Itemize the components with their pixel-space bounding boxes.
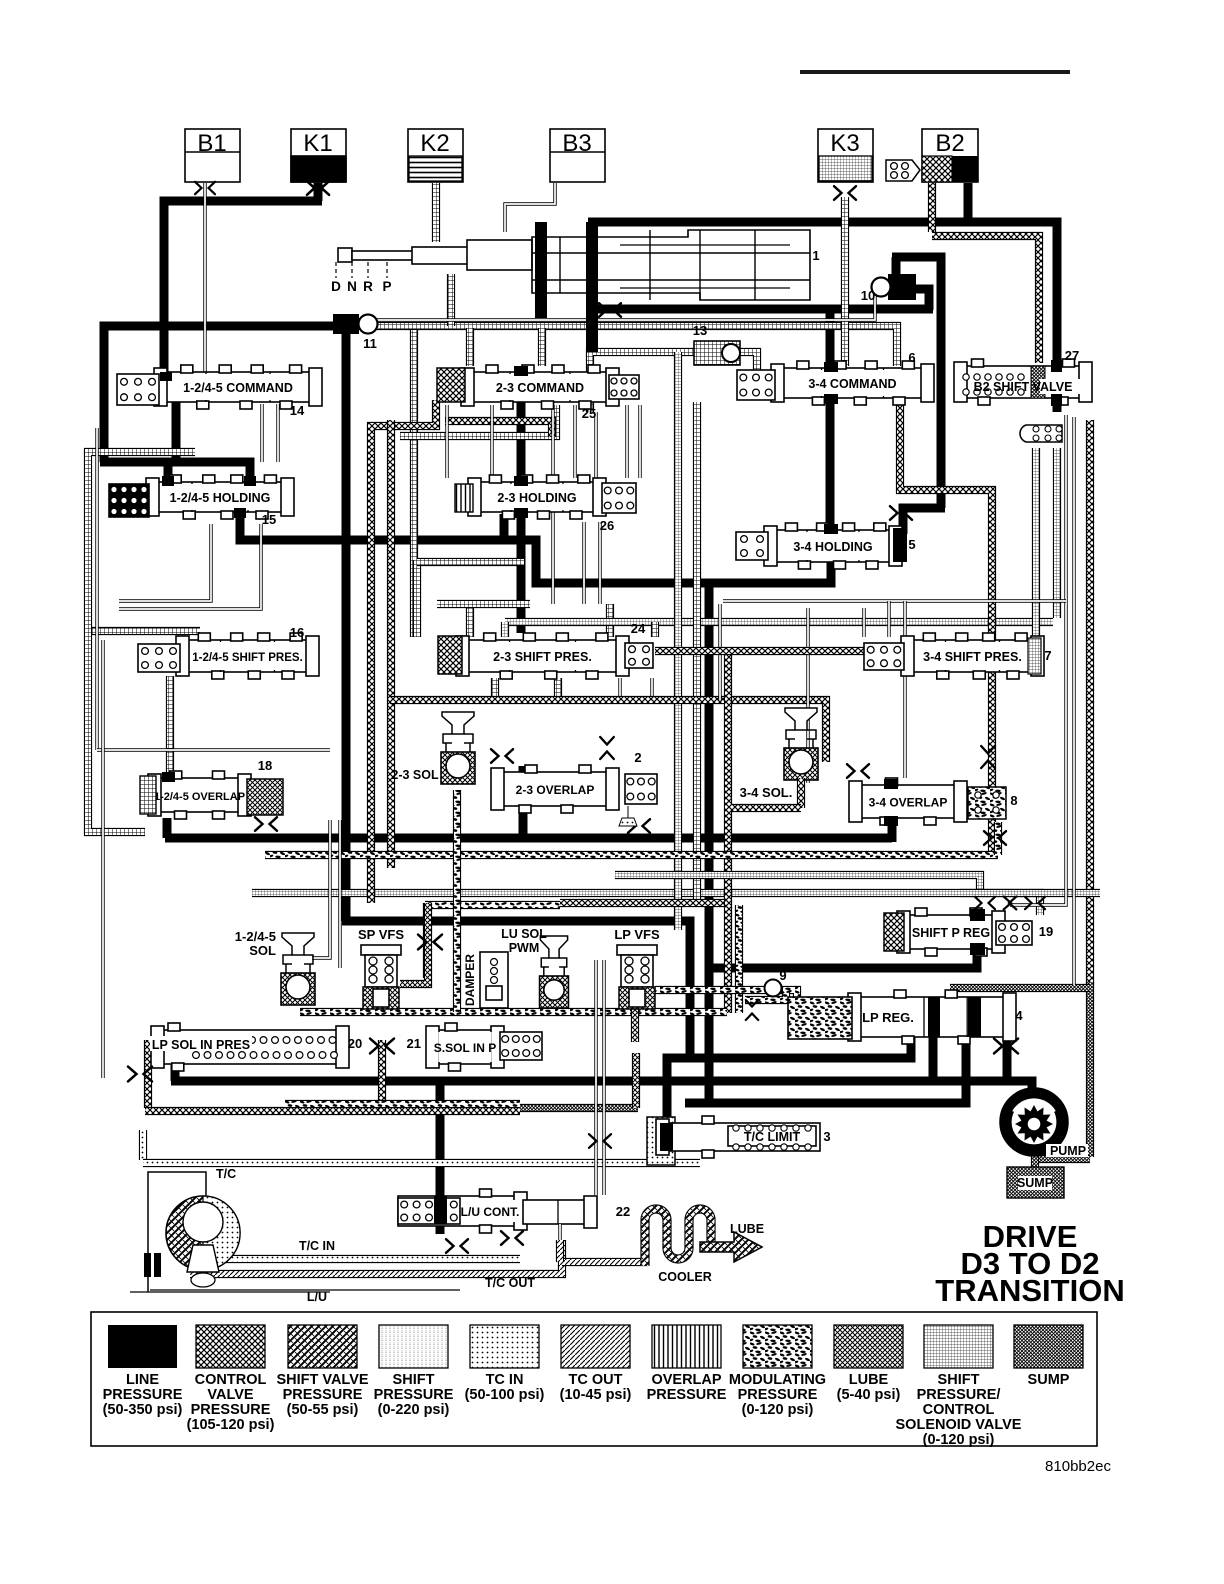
svg-text:PRESSURE: PRESSURE — [647, 1387, 727, 1403]
shaft line pressure bars — [535, 222, 547, 318]
left ladder frame — [88, 452, 195, 832]
svg-text:P: P — [382, 279, 391, 294]
control band y903 — [560, 899, 726, 907]
svg-text:26: 26 — [600, 518, 614, 533]
svg-text:B2: B2 — [935, 130, 964, 157]
spray nozzle under 2-3 overlap — [619, 806, 637, 826]
svg-text:3-4 SHIFT PRES.: 3-4 SHIFT PRES. — [923, 650, 1022, 664]
svg-text:SP VFS: SP VFS — [358, 927, 404, 942]
svg-text:(50-55 psi): (50-55 psi) — [287, 1402, 359, 1418]
svg-text:2-3 COMMAND: 2-3 COMMAND — [496, 381, 584, 395]
pump — [1000, 1088, 1068, 1156]
svg-text:LP SOL IN PRES: LP SOL IN PRES — [152, 1038, 250, 1052]
thin links right of 3-4 holding — [723, 599, 1066, 602]
legend OVERLAP — [652, 1325, 721, 1368]
selector position labels D N R P — [335, 262, 337, 278]
svg-text:CONTROL: CONTROL — [923, 1402, 995, 1418]
svg-text:T/C: T/C — [216, 1167, 236, 1181]
svg-text:6: 6 — [908, 350, 915, 365]
svg-text:LP REG.: LP REG. — [862, 1010, 914, 1025]
svg-text:PUMP: PUMP — [1050, 1144, 1086, 1158]
svg-text:PRESSURE: PRESSURE — [283, 1387, 363, 1403]
valve 2-3 shift pres — [460, 640, 625, 672]
sump suction to pump — [1086, 982, 1094, 1157]
svg-text:K1: K1 — [303, 130, 332, 157]
svg-text:2-3 SOL: 2-3 SOL — [391, 768, 439, 782]
ladder into 1-2/4-5 shift pres — [84, 627, 200, 635]
shift pressure below shaft — [447, 274, 455, 326]
node 13 — [694, 341, 740, 365]
valve 1-2/4-5 holding — [150, 482, 290, 512]
t/c out line — [190, 1240, 562, 1274]
sump drain near t/c limit — [520, 1104, 638, 1112]
lp vfs drain — [631, 1005, 639, 1042]
legend TC OUT — [561, 1325, 630, 1368]
svg-text:SOLENOID VALVE: SOLENOID VALVE — [896, 1417, 1022, 1433]
legend box — [91, 1312, 1097, 1446]
line pressure bottom bus 2 — [171, 1057, 180, 1081]
stubs below 2-3 shift pres — [491, 678, 499, 700]
orifice to 3-4 overlap — [847, 764, 869, 778]
svg-text:1-2/4-5 OVERLAP: 1-2/4-5 OVERLAP — [154, 791, 245, 803]
svg-text:16: 16 — [290, 625, 304, 640]
svg-text:D: D — [331, 279, 341, 294]
valve shift p reg — [901, 915, 1001, 949]
right edge control drop — [1086, 420, 1094, 985]
svg-text:(5-40 psi): (5-40 psi) — [837, 1387, 901, 1403]
valve 1-2/4-5 command — [158, 372, 318, 402]
control pressure from B2 — [928, 183, 936, 232]
valve b2 shift valve — [958, 366, 1088, 398]
l/u cont thin lines — [594, 960, 597, 1195]
valve 3-4 overlap — [853, 785, 963, 818]
shift valve pressure line from node 11 — [376, 326, 897, 366]
line pressure 3-4 command feed — [826, 309, 835, 532]
shift band y620 to 3-4 shift pres — [505, 618, 1053, 626]
legend SUMP — [1014, 1325, 1083, 1368]
right edge thin drop — [1010, 415, 1066, 905]
svg-text:SHIFT P REG: SHIFT P REG — [912, 926, 990, 940]
svg-text:COOLER: COOLER — [658, 1270, 711, 1284]
svg-text:B3: B3 — [562, 130, 591, 157]
line pressure node 11 bus — [104, 326, 336, 462]
clutch K3 — [818, 129, 873, 182]
control band above overlap row — [390, 700, 826, 762]
svg-text:810bb2ec: 810bb2ec — [1045, 1458, 1111, 1475]
svg-text:22: 22 — [616, 1204, 630, 1219]
solenoid 1-2/4-5 sol — [282, 933, 314, 955]
svg-text:18: 18 — [258, 758, 272, 773]
valve 2-3 holding — [472, 482, 602, 512]
solenoid lp vfs — [617, 945, 657, 955]
title underline — [800, 70, 1070, 74]
svg-text:T/C LIMIT: T/C LIMIT — [744, 1130, 801, 1144]
svg-text:LUBE: LUBE — [849, 1372, 889, 1388]
band above 2-3 shift pres — [413, 560, 421, 637]
svg-text:5: 5 — [908, 537, 915, 552]
svg-text:14: 14 — [290, 403, 305, 418]
svg-text:T/C OUT: T/C OUT — [485, 1276, 535, 1290]
t/c in line — [188, 1255, 520, 1263]
valve 3-4 holding — [768, 530, 898, 562]
svg-text:3-4 COMMAND: 3-4 COMMAND — [808, 377, 896, 391]
svg-text:PRESSURE: PRESSURE — [374, 1387, 454, 1403]
svg-text:(0-120 psi): (0-120 psi) — [742, 1402, 814, 1418]
line pressure to L/U control — [436, 1081, 445, 1210]
clutch K1 — [291, 129, 346, 182]
svg-text:SOL: SOL — [249, 943, 276, 958]
svg-text:SUMP: SUMP — [1028, 1372, 1070, 1388]
valve 1-2/4-5 shift pres — [180, 640, 315, 672]
check valve at B2 inlet — [886, 160, 920, 181]
2-3 sol drain — [453, 790, 461, 1012]
svg-text:LUBE: LUBE — [730, 1222, 764, 1236]
legend SHIFT — [379, 1325, 448, 1368]
svg-text:OVERLAP: OVERLAP — [651, 1372, 721, 1388]
shift valve pressure from K3 — [841, 197, 849, 366]
far-left thin pairs — [95, 428, 98, 750]
secondary control vertical — [387, 420, 395, 868]
solenoid 2-3 sol — [442, 712, 474, 734]
manual valve sensing line — [350, 287, 875, 320]
legend CONTROL — [196, 1325, 265, 1368]
svg-text:CONTROL: CONTROL — [195, 1372, 267, 1388]
svg-text:MODULATING: MODULATING — [729, 1372, 826, 1388]
modulating band y855 — [265, 851, 998, 859]
l/u piping — [523, 1200, 593, 1224]
node 10 — [888, 274, 916, 300]
sump — [1007, 1167, 1064, 1198]
line pressure 2-3 spool feed — [517, 370, 526, 633]
modulating band y905 — [425, 901, 560, 909]
torque converter T/C — [148, 1172, 206, 1292]
cooler coil — [645, 1209, 711, 1266]
svg-text:21: 21 — [407, 1036, 421, 1051]
solenoid lu sol pwm — [540, 936, 567, 958]
svg-text:PRESSURE: PRESSURE — [103, 1387, 183, 1403]
svg-text:3: 3 — [823, 1129, 830, 1144]
svg-text:1-2/4-5 SHIFT PRES.: 1-2/4-5 SHIFT PRES. — [192, 652, 303, 664]
legend LUBE — [834, 1325, 903, 1368]
svg-text:PRESSURE: PRESSURE — [191, 1402, 271, 1418]
legend LINE — [108, 1325, 177, 1368]
svg-text:LP VFS: LP VFS — [614, 927, 660, 942]
svg-text:PRESSURE: PRESSURE — [738, 1387, 818, 1403]
svg-text:13: 13 — [693, 323, 707, 338]
long shift band y893 — [252, 893, 1040, 915]
line pressure 1-2/4-5 command to holding — [172, 402, 181, 462]
svg-text:SHIFT: SHIFT — [393, 1372, 435, 1388]
speckle line above lp sol — [285, 1100, 520, 1108]
l/u line — [150, 1289, 460, 1291]
orifice under K3 — [834, 186, 856, 200]
svg-text:2: 2 — [634, 750, 641, 765]
svg-text:1-2/4-5 HOLDING: 1-2/4-5 HOLDING — [170, 491, 271, 505]
line pressure shift-p-reg drain — [705, 585, 714, 1105]
selector rod — [338, 248, 352, 262]
2-3 to overlap thin verticals — [582, 522, 585, 604]
svg-text:B2 SHIFT VALVE: B2 SHIFT VALVE — [974, 380, 1073, 394]
center fine vertical — [674, 352, 682, 930]
svg-text:27: 27 — [1065, 348, 1079, 363]
svg-text:TRANSITION: TRANSITION — [935, 1273, 1124, 1308]
control band mid — [445, 421, 552, 437]
b3 line — [505, 183, 555, 232]
manual valve body 1 — [532, 230, 810, 300]
modulating band y875 — [615, 875, 980, 897]
svg-text:(105-120 psi): (105-120 psi) — [187, 1417, 275, 1433]
control band between shift pres valves — [655, 647, 864, 655]
clutch B3 — [550, 129, 605, 182]
3-4 control loop — [900, 404, 992, 858]
svg-text:8: 8 — [1010, 793, 1017, 808]
legend MODULATING — [743, 1325, 812, 1368]
damper — [480, 952, 508, 1008]
svg-text:R: R — [363, 279, 373, 294]
svg-text:3-4 OVERLAP: 3-4 OVERLAP — [869, 796, 948, 810]
orifice at shaft — [599, 303, 621, 317]
svg-text:3-4 HOLDING: 3-4 HOLDING — [793, 540, 872, 554]
svg-text:L/U CONT.: L/U CONT. — [461, 1205, 520, 1219]
svg-text:1-2/4-5 COMMAND: 1-2/4-5 COMMAND — [183, 381, 293, 395]
svg-text:10: 10 — [861, 288, 875, 303]
svg-text:2-3 SHIFT PRES.: 2-3 SHIFT PRES. — [493, 650, 592, 664]
svg-text:PWM: PWM — [509, 941, 540, 955]
line pressure 2-3 overlap branch — [519, 766, 528, 840]
lp-sol frame — [144, 1040, 152, 1108]
svg-text:T/C IN: T/C IN — [299, 1239, 335, 1253]
line pressure overlap bus — [165, 834, 892, 843]
svg-text:N: N — [347, 279, 357, 294]
legend SHIFT — [924, 1325, 993, 1368]
line pressure top rail to B2 shift valve — [588, 224, 597, 244]
solenoid 3-4 sol — [785, 708, 817, 730]
valve l/u cont — [398, 1196, 523, 1226]
svg-text:SHIFT VALVE: SHIFT VALVE — [276, 1372, 368, 1388]
clutch K2 — [408, 129, 463, 182]
svg-text:(50-100 psi): (50-100 psi) — [465, 1387, 545, 1403]
svg-text:2-3 OVERLAP: 2-3 OVERLAP — [516, 783, 595, 797]
svg-text:VALVE: VALVE — [207, 1387, 254, 1403]
legend SHIFT VALVE — [288, 1325, 357, 1368]
svg-text:TC OUT: TC OUT — [569, 1372, 623, 1388]
line pressure from K1 to 1-2/4-5 command — [314, 183, 323, 201]
valve t/c limit — [647, 1117, 675, 1165]
sp vfs feed — [400, 903, 428, 984]
node 9 — [745, 988, 786, 1000]
svg-text:20: 20 — [348, 1036, 362, 1051]
line pressure node 10 loop — [892, 257, 901, 278]
valve 3-4 shift pres — [905, 640, 1040, 672]
svg-text:15: 15 — [262, 512, 276, 527]
svg-text:11: 11 — [363, 336, 377, 351]
line pressure bottom bus 1 — [667, 1036, 911, 1127]
svg-text:(10-45 psi): (10-45 psi) — [560, 1387, 632, 1403]
lube arrow — [700, 1232, 762, 1262]
valve 3-4 command — [775, 368, 930, 398]
sol feed thin lines — [312, 820, 330, 958]
svg-text:1: 1 — [812, 248, 819, 263]
svg-text:3-4 SOL.: 3-4 SOL. — [740, 785, 793, 800]
svg-text:24: 24 — [631, 621, 646, 636]
1-2/4-5 shift pres to overlap — [166, 676, 174, 777]
svg-text:S.SOL IN P: S.SOL IN P — [434, 1041, 496, 1055]
valve s.sol in p — [430, 1030, 500, 1064]
svg-text:K2: K2 — [420, 130, 449, 157]
band below 1-2/4-5 command — [400, 405, 556, 436]
svg-text:TC IN: TC IN — [486, 1372, 524, 1388]
svg-text:LINE: LINE — [126, 1372, 159, 1388]
svg-text:K3: K3 — [830, 130, 859, 157]
line pressure bottom bus 3 — [685, 1036, 966, 1103]
t/c feed line — [139, 1130, 147, 1160]
line pressure holding row to 3-4 holding — [240, 514, 831, 583]
control loop 2-3 command down-left — [371, 400, 436, 903]
svg-text:DAMPER: DAMPER — [463, 954, 477, 1006]
check valve 3-4 shift pres feed — [1020, 425, 1062, 442]
svg-text:1-2/4-5: 1-2/4-5 — [235, 929, 276, 944]
svg-text:B1: B1 — [197, 130, 226, 157]
solenoid sp vfs — [361, 945, 401, 955]
valve lp reg — [852, 997, 1012, 1037]
valve 2-3 command — [465, 372, 615, 402]
svg-text:LU SOL: LU SOL — [501, 927, 547, 941]
svg-text:L/U: L/U — [307, 1290, 327, 1304]
left-center thin verticals — [260, 404, 263, 462]
clutch B2 — [922, 129, 978, 182]
clutch B1 — [185, 129, 240, 182]
svg-text:7: 7 — [1044, 648, 1051, 663]
svg-text:SHIFT: SHIFT — [938, 1372, 980, 1388]
node 11 — [333, 314, 359, 334]
left shift-valve vertical bundle — [410, 330, 418, 637]
cooler inlet — [562, 1258, 648, 1266]
svg-text:(0-120 psi): (0-120 psi) — [923, 1432, 995, 1448]
svg-text:4: 4 — [1015, 1008, 1023, 1023]
svg-text:19: 19 — [1039, 924, 1053, 939]
shift line to 2-3 command — [538, 328, 546, 366]
b1 apply line — [203, 183, 206, 372]
svg-text:(50-350 psi): (50-350 psi) — [103, 1402, 183, 1418]
shift pressure drop K2 — [432, 183, 440, 242]
svg-text:SUMP: SUMP — [1017, 1176, 1053, 1190]
svg-text:25: 25 — [582, 406, 596, 421]
valve 2-3 overlap — [495, 772, 615, 806]
valve 1-2/4-5 overlap — [152, 778, 247, 812]
svg-text:2-3 HOLDING: 2-3 HOLDING — [497, 491, 576, 505]
svg-text:(0-220 psi): (0-220 psi) — [378, 1402, 450, 1418]
lu sol / lp vfs modulating line — [655, 986, 788, 994]
line pressure node 11 drop to lower bus — [342, 332, 351, 921]
svg-text:PRESSURE/: PRESSURE/ — [917, 1387, 1001, 1403]
valve lp sol in pres — [155, 1030, 345, 1064]
legend TC IN — [470, 1325, 539, 1368]
shift valve line node 13 link — [590, 352, 694, 412]
orifice under B1 — [195, 182, 215, 194]
svg-text:9: 9 — [779, 968, 786, 983]
